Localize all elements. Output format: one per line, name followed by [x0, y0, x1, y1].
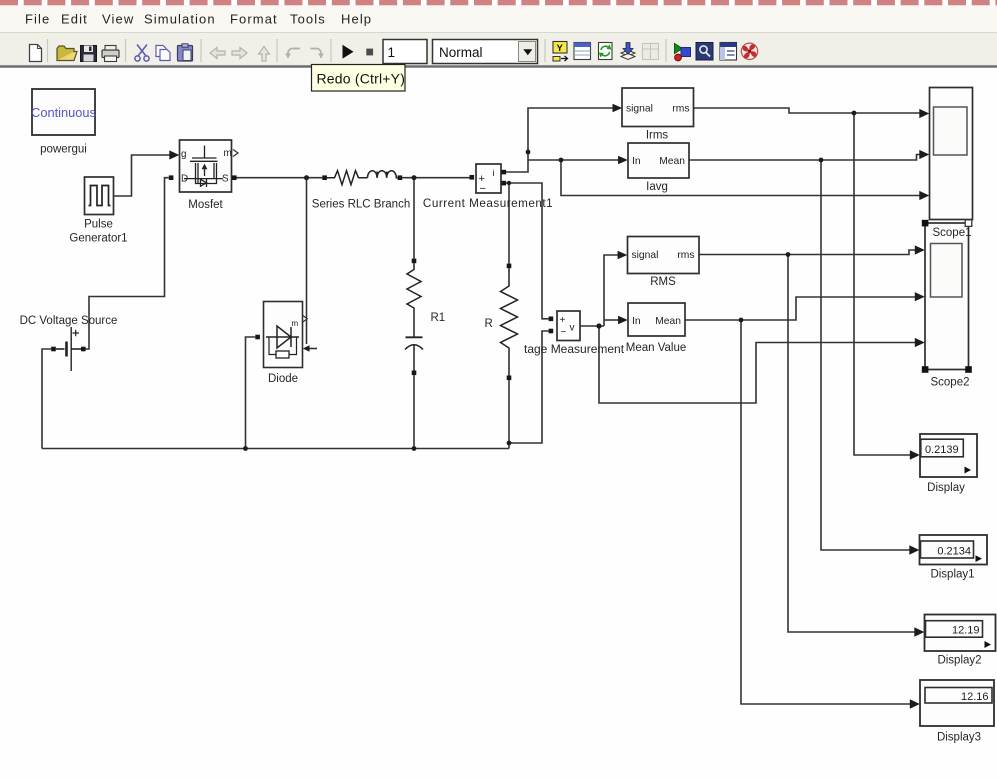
wire: Current Measurement1 - to node and down to Voltage Measurement +	[506, 183, 549, 319]
svg-text:powergui: powergui	[40, 144, 87, 156]
icon: stop	[366, 49, 373, 56]
Diode block D1	[264, 302, 308, 368]
svg-text:R: R	[485, 318, 493, 330]
Irms block (signal rms)	[622, 88, 694, 127]
wire: branch to Iavg input	[528, 159, 619, 161]
selection handle top-right	[965, 220, 972, 227]
icon: refresh document	[599, 43, 613, 60]
resistor R1 branch (R-C series)	[405, 263, 423, 371]
arrowhead: into Irms	[613, 104, 623, 113]
svg-text:rms: rms	[672, 104, 689, 115]
resistor R branch	[501, 268, 518, 376]
icon: update diagram stack	[621, 43, 635, 60]
port: R1 bottom	[412, 371, 417, 376]
Mosfet block U1	[180, 140, 239, 192]
port: Mosfet D	[169, 175, 174, 180]
icon: back arrow (disabled)	[210, 48, 225, 59]
wire: Series RLC Branch right port to Current Measurement1 +	[402, 177, 469, 179]
wire: DC Voltage Source - down to rail	[42, 349, 51, 449]
svg-text:Display: Display	[927, 482, 965, 494]
wire: Pulse Generator1 output to Mosfet gate g	[114, 155, 170, 196]
svg-text:g: g	[181, 149, 186, 160]
svg-text:Redo (Ctrl+Y): Redo (Ctrl+Y)	[317, 71, 406, 87]
svg-text:Scope2: Scope2	[930, 377, 969, 389]
junction Irms line to Display	[852, 111, 857, 116]
junction rail-R1	[412, 446, 417, 451]
port: VM +	[549, 317, 554, 322]
junction node S-diode	[304, 175, 309, 180]
wire: Mean Value line down to Display3 input	[741, 320, 911, 704]
svg-text:Format: Format	[230, 12, 278, 27]
icon: open folder	[57, 46, 77, 61]
Display3 block	[920, 680, 994, 726]
arrowhead: into Display3	[910, 699, 920, 709]
svg-text:1: 1	[388, 45, 396, 60]
svg-text:Edit: Edit	[61, 12, 88, 27]
wire: v node up to RMS input	[604, 255, 619, 326]
junction Mean Value line to Display3	[739, 318, 744, 323]
svg-text:Simulation: Simulation	[144, 12, 216, 27]
arrowhead: into Diode cathode port	[303, 345, 310, 352]
Iavg block (In Mean)	[628, 143, 689, 178]
Display2 block	[925, 615, 996, 652]
svg-text:12.16: 12.16	[961, 691, 989, 703]
Display1 block	[920, 535, 988, 565]
Display block	[920, 434, 977, 477]
wire: v node down east and up to Scope2 input 3	[599, 326, 916, 403]
arrowhead: into Scope1 input 1	[919, 109, 929, 118]
icon: forward arrow (disabled)	[232, 48, 247, 59]
svg-text:−: −	[561, 327, 567, 338]
menu bar background	[0, 5, 997, 32]
svg-text:Pulse: Pulse	[84, 219, 113, 231]
junction Iavg line to Display1	[819, 158, 824, 163]
junction rail-diode	[243, 446, 248, 451]
svg-text:Display1: Display1	[930, 569, 974, 581]
svg-text:signal: signal	[626, 104, 653, 115]
svg-text:Continuous: Continuous	[31, 105, 96, 120]
svg-text:In: In	[632, 316, 641, 327]
wire: bottom ground rail	[42, 448, 509, 450]
arrowhead: into Scope2 input 1	[915, 245, 925, 254]
Series RLC Branch icon	[327, 171, 398, 185]
arrowhead: into Scope1 input 3	[919, 191, 929, 200]
port: battery right	[81, 347, 86, 352]
svg-text:m: m	[224, 148, 232, 159]
icon: copy	[156, 46, 170, 61]
wire: Mean Value output to Scope2 input 2	[685, 297, 916, 320]
svg-text:tage Measurement: tage Measurement	[524, 342, 625, 356]
arrowhead: into Display1	[909, 545, 919, 555]
wire: R1 bottom to rail	[413, 375, 415, 448]
port: RLC left	[322, 175, 327, 180]
toolbar bottom dark line	[0, 65, 997, 67]
svg-text:Normal: Normal	[439, 45, 483, 60]
svg-text:Mosfet: Mosfet	[188, 199, 223, 211]
port: CM input +	[470, 175, 475, 180]
svg-text:m: m	[292, 319, 299, 328]
wire: Mosfet S to Series RLC Branch left port	[237, 177, 323, 179]
svg-text:Mean: Mean	[655, 316, 681, 327]
toolbar separators	[48, 39, 667, 62]
svg-text:Display2: Display2	[937, 655, 981, 667]
port: R1 top	[412, 259, 417, 264]
port nubs	[51, 170, 553, 380]
arrowhead: into Display2	[914, 627, 924, 637]
icon: undo (disabled)	[285, 49, 300, 59]
icon: library (striped box)	[574, 43, 591, 60]
wire: rail branch up to Voltage Measurement -	[509, 331, 549, 443]
arrowhead: into Scope1 input 2	[919, 150, 929, 159]
Current Measurement1 block	[476, 164, 501, 195]
svg-text:S: S	[222, 174, 229, 185]
icon: debug	[675, 44, 691, 61]
svg-text:signal: signal	[632, 250, 659, 261]
arrowhead: into Scope2 input 3	[915, 338, 925, 347]
icon: red fan	[741, 43, 757, 59]
port: Diode anode	[255, 335, 260, 340]
wire: RMS output to Scope2 input 1	[699, 250, 916, 255]
Pulse Generator1 block	[85, 177, 114, 215]
port: Mosfet S	[232, 175, 237, 180]
svg-text:D: D	[181, 174, 188, 185]
port: battery left	[51, 347, 56, 352]
selection handle bottom-right	[965, 366, 972, 373]
icon: save floppy	[81, 46, 97, 62]
svg-text:R1: R1	[431, 312, 446, 324]
svg-text:Irms: Irms	[646, 130, 669, 142]
powergui block	[31, 89, 96, 135]
junction Iavg/Scope line split	[559, 158, 564, 163]
wire: Iavg output to Scope1 input 2	[689, 155, 920, 161]
svg-text:Y: Y	[557, 43, 564, 54]
Scope2 block (selected)	[925, 223, 969, 370]
svg-text:Iavg: Iavg	[646, 181, 668, 193]
junction rail-VoltageMeasurement	[507, 441, 512, 446]
svg-text:File: File	[25, 12, 50, 27]
Scope1 block	[930, 88, 973, 220]
tooltip: Redo (Ctrl+Y)	[312, 65, 406, 92]
icon: model browser (yellow Y)	[553, 42, 568, 62]
red dashed top line	[0, 0, 997, 5]
arrowhead: into Mean Value	[618, 316, 628, 325]
wire: node down to R top	[508, 183, 510, 264]
toolbar background	[0, 32, 997, 66]
selection handle top-left	[922, 220, 929, 227]
wire: node to R1 top	[413, 178, 415, 259]
svg-text:DC Voltage Source: DC Voltage Source	[20, 315, 118, 327]
junction RMS line to Display2	[786, 252, 791, 257]
svg-text:Current Measurement1: Current Measurement1	[423, 197, 553, 210]
icon: redo (disabled)	[311, 49, 325, 59]
icon: play	[343, 45, 354, 59]
svg-text:rms: rms	[677, 250, 694, 261]
svg-text:12.19: 12.19	[952, 625, 980, 637]
port: CM - out	[502, 181, 507, 186]
svg-text:i: i	[493, 168, 495, 179]
svg-text:0.2139: 0.2139	[925, 444, 959, 456]
svg-text:v: v	[570, 323, 575, 334]
icon: paste clipboard	[178, 44, 193, 61]
Voltage Measurement block	[557, 311, 580, 341]
junction i line split	[526, 150, 531, 155]
svg-text:Diode: Diode	[268, 373, 298, 385]
svg-text:Display3: Display3	[937, 732, 981, 744]
arrowhead: into Iavg	[618, 156, 628, 165]
wire: Iavg line down to Display1 input	[821, 160, 911, 550]
wire: RMS line down to Display2 input	[788, 255, 916, 633]
toolbar sim time field	[383, 40, 427, 64]
arrowhead: into Display	[910, 450, 920, 460]
svg-text:+: +	[560, 315, 566, 326]
arrowhead: into Mosfet g	[169, 150, 179, 159]
port: R bottom	[507, 376, 512, 381]
icon: up arrow (disabled)	[259, 47, 270, 62]
port: R top	[507, 264, 512, 269]
selection handle bottom-left	[922, 366, 929, 373]
junction node R top	[507, 181, 511, 185]
svg-text:Mean Value: Mean Value	[626, 342, 687, 354]
Mean Value block (In Mean)	[628, 303, 685, 336]
wire: R bottom to rail	[508, 380, 510, 448]
port: CM i out	[502, 170, 507, 175]
label: Pulse Generator1	[69, 219, 127, 245]
svg-text:Mean: Mean	[659, 156, 685, 167]
icon: new file	[30, 45, 42, 62]
junction node R1 top	[412, 175, 417, 180]
wire: Irms output to Scope1 input 1	[694, 108, 921, 113]
svg-text:Generator1: Generator1	[69, 233, 127, 245]
wire: DC Voltage Source + up to Mosfet D input	[86, 178, 169, 349]
svg-text:Scope1: Scope1	[932, 227, 971, 239]
svg-text:Series RLC Branch: Series RLC Branch	[312, 199, 410, 211]
svg-text:In: In	[632, 156, 641, 167]
svg-text:Tools: Tools	[290, 12, 326, 27]
arrowhead: into Scope2 input 2	[915, 292, 925, 301]
junction v output node	[596, 323, 601, 328]
icon: disabled grid	[643, 44, 659, 60]
svg-text:Help: Help	[341, 12, 372, 27]
wire: node S down to Diode cathode	[306, 178, 308, 344]
svg-text:RMS: RMS	[650, 276, 676, 288]
port: RLC right	[398, 175, 403, 180]
icon: cut scissors	[135, 45, 149, 62]
svg-text:0.2134: 0.2134	[937, 546, 971, 558]
arrowhead: into RMS	[618, 251, 628, 260]
wire: Voltage Measurement v output node	[580, 325, 604, 327]
icon: find in library	[696, 43, 713, 61]
icon: print	[102, 46, 119, 62]
icon: library browser	[720, 43, 737, 61]
svg-text:−: −	[480, 183, 486, 195]
wire: branch down and east to Scope1 input 3	[561, 160, 920, 196]
svg-text:View: View	[102, 12, 134, 27]
wire: Diode anode to bottom rail	[246, 337, 256, 449]
wire: Diode cathode stub	[309, 348, 317, 350]
wire: Current Measurement1 i output up to Irms input	[506, 108, 613, 172]
RMS block (signal rms)	[628, 237, 700, 274]
toolbar mode combobox "Normal"	[433, 40, 538, 64]
wire: Irms line down to Display input	[854, 113, 911, 455]
DC Voltage Source battery	[56, 327, 81, 371]
port: VM -	[549, 329, 554, 334]
wire: v node to Mean Value input	[604, 319, 619, 321]
